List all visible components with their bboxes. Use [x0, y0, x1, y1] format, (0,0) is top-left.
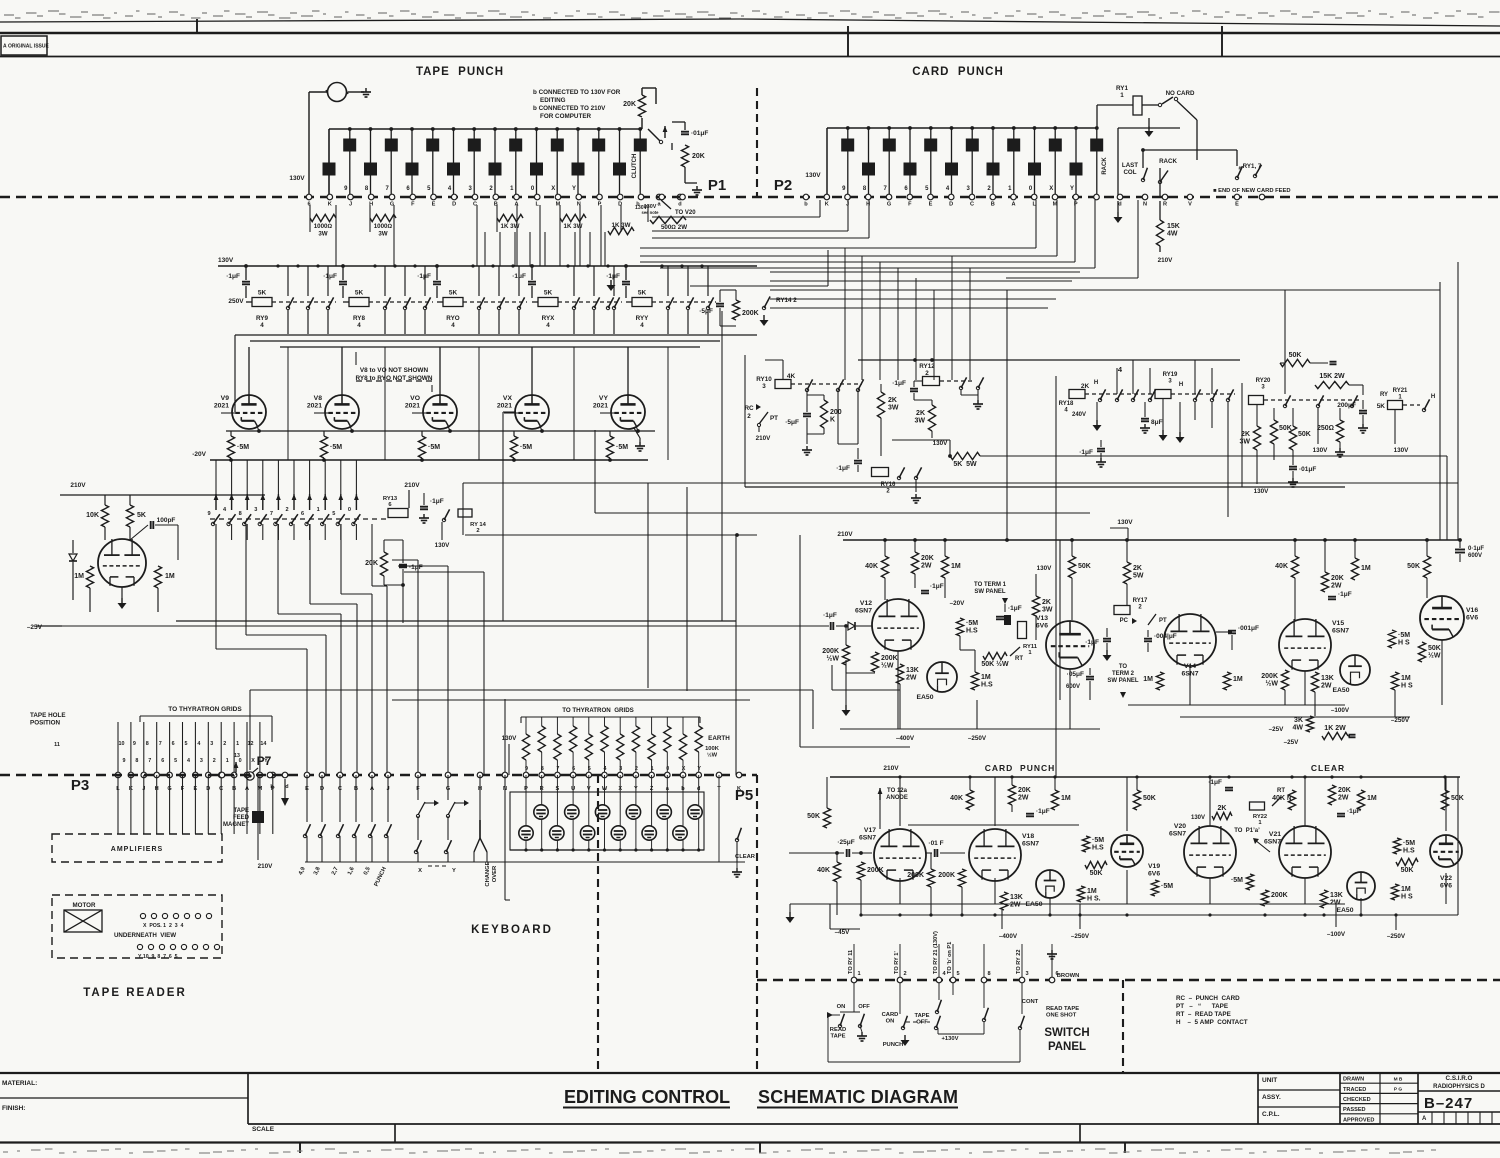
connector pin C — [337, 772, 343, 778]
connector pin P1 — [680, 194, 686, 200]
resistor 200K half W — [822, 645, 849, 665]
connector pin P2 — [948, 194, 954, 200]
svg-text:RY1, 7: RY1, 7 — [1243, 163, 1262, 170]
svg-text:R: R — [1163, 202, 1167, 208]
bus wire — [1180, 716, 1410, 718]
ground — [1093, 420, 1102, 431]
label -100V — [1327, 931, 1346, 938]
wire — [271, 722, 273, 742]
wire — [1394, 410, 1396, 444]
junction — [257, 429, 261, 433]
svg-text:PASSED: PASSED — [1343, 1107, 1366, 1113]
wire — [666, 775, 668, 805]
svg-text:H S: H S — [1401, 894, 1413, 901]
svg-text:TO THYRATRON GRIDS: TO THYRATRON GRIDS — [168, 706, 242, 713]
svg-text:CARD PUNCH: CARD PUNCH — [912, 66, 1004, 78]
label -25V — [1284, 739, 1300, 746]
svg-text:D: D — [949, 202, 953, 208]
label 2 — [635, 766, 638, 772]
wire — [938, 944, 940, 977]
border tick bottom — [759, 1142, 761, 1153]
svg-text:1: 1 — [1120, 92, 1124, 99]
contact linkage dashed — [940, 380, 975, 382]
pin letter B — [232, 786, 236, 792]
section divider dashed — [1122, 980, 1124, 1073]
wire — [845, 665, 847, 673]
svg-text:V13: V13 — [1036, 615, 1048, 622]
wire — [1292, 408, 1294, 426]
svg-text:·1μF: ·1μF — [823, 612, 837, 619]
svg-text:TAPE READER: TAPE READER — [83, 987, 187, 999]
wire — [1079, 904, 1081, 929]
resistor 20K 2W — [1008, 785, 1030, 805]
card magnet wire — [971, 128, 973, 197]
resistor .5M HS — [1388, 630, 1410, 648]
svg-text:+130V: +130V — [942, 1036, 959, 1042]
wire to amplifier — [169, 775, 171, 834]
junction — [420, 458, 424, 462]
connector pin — [696, 772, 702, 778]
pin letter D — [206, 786, 210, 792]
resistor 15K 2W — [1315, 373, 1349, 389]
indicator lamp lower — [550, 826, 564, 840]
wire — [235, 772, 237, 775]
svg-text:TO V20: TO V20 — [675, 210, 696, 216]
ground — [118, 598, 127, 609]
border top thin line right — [740, 19, 1500, 26]
label -250V — [1387, 933, 1406, 940]
svg-text:12: 12 — [248, 741, 254, 747]
label — [1238, 166, 1241, 172]
wire — [541, 717, 543, 726]
bus wire — [465, 534, 757, 536]
revision box ORIGINAL ISSUE — [1, 36, 50, 55]
grid resistor 5 — [585, 734, 592, 760]
card punch magnet 4 — [904, 163, 917, 176]
pin letter B — [991, 202, 995, 208]
relay coil RYO — [443, 290, 463, 307]
wire — [807, 433, 824, 435]
thyratron VY 2021 — [593, 395, 645, 429]
svg-text:5: 5 — [332, 511, 335, 517]
svg-text:–400V: –400V — [896, 735, 915, 742]
svg-text:H S.: H S. — [1087, 896, 1101, 903]
svg-text:·1μF: ·1μF — [323, 273, 337, 280]
wire — [423, 493, 425, 505]
resistor 1M — [1051, 790, 1070, 810]
svg-text:·1μF: ·1μF — [836, 465, 850, 472]
arrow to thyratron grid — [338, 494, 343, 510]
capacitor .01uF — [928, 840, 943, 857]
wire — [719, 308, 721, 326]
svg-text:CONT: CONT — [1022, 999, 1039, 1005]
wire — [961, 394, 978, 396]
svg-text:V16: V16 — [1466, 607, 1478, 614]
tube V18 6SN7 — [969, 829, 1039, 881]
label 130V — [644, 204, 657, 210]
punch magnet 15 — [613, 163, 626, 176]
svg-text:B–247: B–247 — [1424, 1095, 1473, 1112]
capacitor 8uF — [1141, 419, 1163, 426]
pin letter d — [678, 202, 682, 208]
relay coil RY21 — [1377, 401, 1403, 411]
junction on bus — [576, 127, 580, 131]
pin number 8 — [863, 186, 867, 192]
junction — [735, 533, 739, 537]
label -20V — [950, 600, 966, 607]
wire — [525, 760, 527, 775]
label -250V — [1391, 717, 1410, 724]
svg-text:210V: 210V — [837, 531, 853, 538]
wire pin N drop — [1137, 200, 1139, 278]
wire — [651, 775, 653, 826]
wire — [1362, 385, 1364, 395]
punch magnet 1 — [323, 163, 336, 176]
lamp enclosure — [510, 792, 704, 850]
pin letter C — [338, 786, 342, 792]
wire — [1148, 118, 1150, 126]
svg-text:b: b — [804, 202, 808, 208]
pin letter H — [478, 786, 482, 792]
arrow to thyratron grid — [245, 494, 250, 510]
svg-text:TRACED: TRACED — [1343, 1087, 1366, 1093]
punch magnet wire — [639, 129, 641, 197]
junction — [1359, 775, 1362, 778]
relay coil RY12 — [923, 377, 940, 386]
svg-text:130V: 130V — [1313, 447, 1329, 454]
connector pin P1 — [514, 194, 520, 200]
svg-text:V15: V15 — [1332, 620, 1344, 627]
key contact X — [414, 840, 421, 854]
border tick — [847, 26, 849, 56]
svg-text:OVER: OVER — [492, 865, 498, 882]
tape hole wire — [117, 722, 119, 775]
svg-text:RC: RC — [744, 405, 754, 412]
wire — [1395, 915, 1397, 930]
wire — [215, 524, 217, 649]
connector line P3 P5 dashed — [0, 774, 757, 777]
wire tube cathode — [1189, 666, 1191, 705]
resistor 1M HS — [1391, 672, 1413, 690]
svg-text:X: X — [1049, 186, 1053, 192]
wire — [579, 205, 581, 266]
wire — [800, 746, 910, 748]
label TO TERM 2 SW PANEL — [1107, 664, 1139, 684]
title block vertical — [247, 1073, 249, 1124]
wire grid feed — [324, 460, 326, 494]
connector label P7 — [257, 754, 272, 768]
svg-text:RY21: RY21 — [1393, 388, 1408, 394]
svg-text:RY19: RY19 — [1163, 372, 1178, 378]
relay coil RY8 — [349, 290, 369, 307]
svg-text:3: 3 — [254, 507, 257, 513]
wire — [684, 167, 686, 183]
resistor 10K — [86, 505, 108, 527]
resistor 2K 3W — [877, 392, 898, 418]
label 1K 3W — [564, 223, 583, 230]
svg-text:RC – PUNCH CARD: RC – PUNCH CARD — [1176, 995, 1240, 1002]
wire — [635, 819, 637, 850]
label 0 — [666, 766, 669, 772]
wire — [1314, 692, 1316, 716]
wire — [944, 578, 946, 598]
relay label RYY — [636, 315, 650, 329]
label X POS.1 2 3 4 — [143, 923, 183, 929]
arrow — [1002, 598, 1008, 612]
punch magnet wire — [577, 129, 579, 197]
wire — [572, 775, 574, 805]
contact RY10 — [836, 379, 843, 391]
note V8 to VO NOT SHOWN — [356, 367, 433, 382]
connector pin P1 — [327, 194, 333, 200]
title cell line — [1340, 1113, 1418, 1115]
section label SWITCH PANEL — [1044, 1027, 1089, 1053]
wire — [572, 819, 574, 850]
svg-text:8: 8 — [987, 971, 990, 977]
wire — [529, 232, 531, 266]
svg-text:ON: ON — [886, 1019, 895, 1025]
label Y — [264, 758, 268, 764]
wire — [827, 1014, 840, 1016]
wire — [436, 266, 438, 280]
wire — [1362, 400, 1364, 409]
svg-text:6V6: 6V6 — [1148, 871, 1160, 878]
resistor 50K — [1441, 790, 1463, 810]
svg-text:4: 4 — [187, 758, 190, 764]
wire — [1096, 105, 1098, 128]
svg-text:3W: 3W — [378, 231, 387, 238]
junction on bus — [472, 127, 476, 131]
connector pin P3 — [244, 772, 250, 778]
svg-text:40K: 40K — [1275, 563, 1288, 570]
tape hole wire — [207, 722, 209, 775]
key contact PUNCH — [384, 824, 391, 838]
wire — [1142, 104, 1158, 106]
wire — [641, 88, 643, 95]
label 6 — [1055, 971, 1058, 977]
junction on bus — [369, 127, 373, 131]
wire — [1426, 578, 1428, 598]
svg-text:·1μF: ·1μF — [930, 583, 944, 590]
contact RYO.2 — [497, 297, 504, 309]
wire — [721, 311, 723, 621]
svg-text:Y: Y — [452, 868, 456, 874]
junction on bus — [618, 127, 622, 131]
wire — [539, 205, 541, 266]
pin letter R — [1163, 202, 1167, 208]
label 7 — [556, 766, 559, 772]
section label TAPE READER — [83, 987, 187, 999]
svg-text:–100V: –100V — [1327, 931, 1346, 938]
wire — [496, 205, 498, 232]
wire — [914, 399, 932, 401]
wire — [328, 129, 330, 197]
svg-text:1M: 1M — [1143, 676, 1153, 683]
label 14 — [260, 741, 266, 747]
wire — [853, 983, 855, 1012]
wire — [447, 852, 449, 862]
dashed link — [906, 1021, 930, 1023]
junction — [1095, 126, 1099, 130]
svg-text:Y: Y — [1070, 186, 1074, 192]
label CHECKED — [1343, 1097, 1371, 1103]
svg-text:130V: 130V — [289, 175, 305, 182]
border tick — [196, 19, 198, 33]
wire — [339, 775, 341, 822]
capacitor .1uF — [996, 605, 1022, 619]
svg-text:·01 F: ·01 F — [928, 840, 943, 847]
wire — [672, 121, 685, 123]
resistor 13K 2W — [1320, 890, 1342, 908]
relay label RY13 — [383, 496, 398, 508]
relay label RY20 — [1256, 378, 1271, 391]
resistor 1M — [1351, 558, 1370, 580]
resistor 40K — [950, 790, 973, 810]
svg-text:130V: 130V — [435, 542, 451, 549]
bus wire — [830, 903, 1345, 905]
wire — [789, 852, 844, 854]
pin number 9 — [842, 186, 846, 192]
indicator lamp upper — [565, 805, 579, 819]
svg-text:2K: 2K — [1241, 431, 1250, 438]
connector pin P2 — [1052, 194, 1058, 200]
svg-text:240V: 240V — [1072, 412, 1086, 418]
capacitor .1uF input — [823, 612, 837, 630]
svg-text:SCHEMATIC DIAGRAM: SCHEMATIC DIAGRAM — [758, 1087, 958, 1107]
connector pin P3 — [231, 772, 237, 778]
wire — [478, 266, 480, 296]
contact RY18 — [1115, 389, 1122, 401]
pin letter Y — [634, 786, 638, 792]
wire — [518, 266, 520, 296]
svg-text:4: 4 — [451, 322, 455, 329]
wire tube cathode — [1304, 878, 1306, 904]
wire to amplifier — [220, 775, 222, 834]
svg-text:·1μF: ·1μF — [1008, 605, 1022, 612]
svg-text:8: 8 — [146, 741, 149, 747]
label NO CARD — [1166, 90, 1195, 97]
label RACK — [1159, 158, 1177, 165]
label 8 — [239, 511, 242, 517]
resistor .5M HS — [956, 618, 978, 636]
capacitor .1uF — [1026, 808, 1050, 816]
capacitor 100pF — [151, 517, 176, 529]
pin number 4 — [448, 186, 452, 192]
wire — [983, 983, 985, 1008]
wire — [556, 775, 558, 826]
svg-text:130V: 130V — [1254, 488, 1270, 495]
switch PT — [1148, 614, 1167, 625]
junction — [1070, 538, 1074, 542]
svg-text:3K: 3K — [1294, 717, 1303, 724]
label 1,6 — [347, 866, 356, 877]
svg-text:Y: Y — [697, 766, 701, 772]
wire — [1179, 402, 1181, 432]
resistor 1K 3W — [608, 227, 634, 234]
svg-text:130V: 130V — [635, 205, 648, 211]
wire — [806, 418, 808, 434]
wire — [89, 588, 91, 612]
wire tube cathode — [899, 878, 901, 904]
junction — [586, 264, 589, 267]
legend — [1176, 995, 1248, 1026]
wire pin A drop — [1035, 200, 1037, 248]
svg-text:6SN7: 6SN7 — [1264, 839, 1281, 846]
svg-text:H.S: H.S — [966, 628, 978, 635]
label 130V — [933, 440, 949, 447]
svg-text:·1μF: ·1μF — [1079, 449, 1093, 456]
svg-text:·5M: ·5M — [428, 444, 440, 451]
label 8 — [541, 766, 544, 772]
svg-text:P1: P1 — [708, 177, 726, 194]
label 11 — [54, 742, 60, 748]
indicator lamp lower — [611, 826, 625, 840]
label 12 — [248, 741, 254, 747]
junction — [835, 851, 839, 855]
junction — [619, 848, 622, 851]
wire tube cathode — [540, 426, 542, 431]
wire — [1194, 360, 1196, 394]
svg-text:CHECKED: CHECKED — [1343, 1097, 1371, 1103]
pin letter G — [390, 202, 394, 208]
svg-text:RACK: RACK — [1159, 158, 1177, 165]
wire to amplifier — [207, 775, 209, 834]
svg-text:5W: 5W — [1133, 573, 1144, 580]
connector pin — [680, 772, 686, 778]
bracket — [140, 715, 272, 717]
svg-text:50K: 50K — [1407, 563, 1420, 570]
svg-text:ONE SHOT: ONE SHOT — [1046, 1013, 1077, 1019]
contact RY16 — [897, 467, 904, 479]
card magnet wire — [992, 128, 994, 197]
section divider dashed vertical — [756, 88, 758, 196]
wire — [960, 649, 975, 651]
drawing number B-247 — [1424, 1095, 1473, 1112]
junction — [393, 264, 396, 267]
svg-text:7: 7 — [556, 766, 559, 772]
relay label RY22 — [1253, 814, 1267, 826]
label 130V — [1254, 488, 1270, 495]
svg-text:13K: 13K — [906, 667, 919, 674]
ground — [1335, 448, 1345, 457]
svg-text:·1μF: ·1μF — [892, 380, 906, 387]
pin letter L — [1032, 202, 1036, 208]
svg-text:–20V: –20V — [950, 600, 966, 607]
wire to amplifier — [272, 775, 274, 834]
svg-text:F: F — [411, 202, 415, 208]
svg-text:2: 2 — [635, 766, 638, 772]
svg-text:PUNCH: PUNCH — [883, 1042, 904, 1048]
wire — [604, 232, 606, 266]
switch panel pin 3 — [1019, 977, 1025, 983]
wire — [604, 775, 606, 805]
grid resistor 3 — [617, 734, 624, 760]
label -25V — [1269, 726, 1285, 733]
svg-text:C: C — [473, 202, 477, 208]
wire — [327, 266, 329, 296]
wire — [1159, 246, 1161, 252]
wire grid feed — [246, 460, 248, 494]
switch RACK — [1158, 171, 1168, 184]
wire — [1110, 527, 1128, 529]
capacitor .25uF — [837, 839, 854, 857]
label 130V — [1117, 519, 1133, 526]
svg-text:200K: 200K — [822, 648, 839, 655]
svg-text:READ: READ — [830, 1027, 846, 1033]
motor M — [326, 83, 364, 102]
pin letter G — [887, 202, 891, 208]
resistor 40K — [865, 556, 888, 578]
